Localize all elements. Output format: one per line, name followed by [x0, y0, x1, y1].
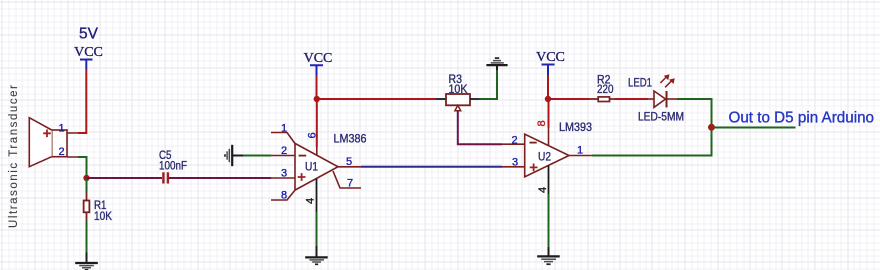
- U1 pin 6 stub: [316, 147, 318, 155]
- svg-text:LED-5MM: LED-5MM: [638, 110, 684, 124]
- svg-text:10K: 10K: [449, 82, 468, 96]
- capacitor C5: [162, 172, 169, 183]
- svg-text:VCC: VCC: [536, 50, 565, 65]
- transducer pin stubs: [67, 133, 78, 157]
- ground (below U1): [305, 246, 328, 265]
- LED1 diode: [648, 91, 677, 107]
- wire R2 to LED1: [615, 98, 648, 100]
- wire R3 wiper to U2 pin 2: [458, 111, 502, 145]
- wire junction VCC2 to R2: [548, 98, 589, 100]
- LED1 light arrows: [660, 74, 675, 87]
- wire junction down to U1 pin 6: [316, 99, 318, 147]
- svg-text:U1: U1: [305, 160, 318, 174]
- potentiometer R3 body: [446, 94, 470, 111]
- R3 left pin stub: [436, 98, 446, 100]
- svg-text:220: 220: [597, 82, 614, 96]
- svg-text:4: 4: [305, 198, 317, 204]
- svg-text:7: 7: [347, 178, 353, 190]
- U2 pin 1 output stub: [569, 155, 592, 157]
- U2 pin 8 stub: [548, 128, 550, 145]
- ground (below R1): [75, 253, 98, 270]
- ground (rotated, at U1 pin 2): [225, 145, 243, 166]
- wire R3 to inverted ground: [479, 71, 497, 99]
- resistor R1: [84, 193, 90, 223]
- ground (inverted, above R3): [486, 58, 507, 71]
- svg-text:3: 3: [281, 168, 287, 180]
- svg-text:5: 5: [346, 156, 352, 168]
- U2 pin stubs left: [502, 144, 525, 167]
- svg-text:10K: 10K: [94, 209, 112, 223]
- svg-text:100nF: 100nF: [159, 159, 187, 173]
- svg-text:U2: U2: [538, 150, 551, 164]
- wire VCC down to junction (U1 pin 6 net): [316, 75, 318, 99]
- junction node A: [83, 175, 89, 181]
- svg-text:6: 6: [307, 132, 319, 138]
- U1 pin 4 stub: [316, 179, 318, 213]
- R3 right pin stub: [470, 98, 479, 100]
- svg-text:LED1: LED1: [628, 76, 652, 90]
- U2 minus sign: [530, 142, 537, 144]
- svg-text:2: 2: [511, 134, 517, 146]
- wire transducer pin 2 down to node: [78, 157, 87, 178]
- svg-text:1: 1: [58, 123, 64, 135]
- op-amp U2 body: [525, 134, 569, 177]
- svg-text:VCC: VCC: [304, 51, 333, 66]
- svg-text:4: 4: [537, 187, 549, 193]
- resistor R2: [589, 97, 615, 102]
- wire VCC to transducer pin 1: [78, 70, 86, 134]
- ultrasonic transducer LS1 body: [29, 118, 67, 167]
- U2 plus sign: [530, 164, 538, 172]
- wire node A to C5: [87, 177, 163, 179]
- svg-text:1: 1: [281, 123, 287, 135]
- junction node OUT: [708, 124, 715, 131]
- U2 pin 4 stub: [548, 165, 550, 194]
- wire ground to U1 pin 2: [243, 155, 271, 157]
- op-amp U1 pin stubs left: [271, 133, 295, 201]
- junction node VCC1: [314, 96, 320, 102]
- U1 pin 5 output stub: [338, 166, 361, 168]
- svg-text:Ultrasonic Transducer: Ultrasonic Transducer: [8, 85, 20, 228]
- svg-text:LM386: LM386: [334, 132, 367, 146]
- power symbol VCC (left): [74, 45, 103, 70]
- wire junction down to U2 pin 8: [548, 99, 550, 128]
- svg-text:LM393: LM393: [559, 120, 592, 134]
- wire VCC down to junction (U2 pin 8 net): [547, 75, 549, 99]
- svg-text:2: 2: [58, 146, 64, 158]
- power symbol VCC (U2): [536, 50, 565, 75]
- svg-text:Out to D5 pin Arduino: Out to D5 pin Arduino: [729, 110, 875, 127]
- wire output to D5: [712, 127, 796, 129]
- wire R1 to ground: [86, 222, 88, 253]
- wire U1 pin 4 to ground: [316, 212, 318, 246]
- power symbol VCC (U1): [304, 51, 333, 75]
- ground (below U2): [537, 247, 560, 265]
- svg-text:5V: 5V: [79, 26, 99, 43]
- svg-text:8: 8: [281, 190, 287, 202]
- U1 pin 7 stub: [333, 171, 361, 188]
- svg-text:3: 3: [512, 156, 518, 168]
- wire node A to R1: [86, 178, 88, 193]
- U1 plus sign: [298, 173, 306, 181]
- svg-text:2: 2: [281, 145, 287, 157]
- junction node VCC2: [545, 96, 551, 102]
- U1 minus sign: [299, 155, 307, 157]
- wire U1 pin 5 to U2 pin 3: [361, 166, 502, 168]
- op-amp U1 body: [295, 143, 338, 190]
- wire U2 pin 1 to LED net corner: [592, 128, 712, 156]
- svg-text:VCC: VCC: [74, 45, 103, 60]
- wire U2 pin 4 to ground: [548, 194, 550, 247]
- wire junction VCC1 to R3: [317, 98, 436, 100]
- svg-text:1: 1: [577, 145, 583, 157]
- wire LED1 to corner: [677, 99, 712, 128]
- wire C5 to U1 pin 3: [169, 177, 271, 179]
- svg-text:8: 8: [536, 120, 548, 126]
